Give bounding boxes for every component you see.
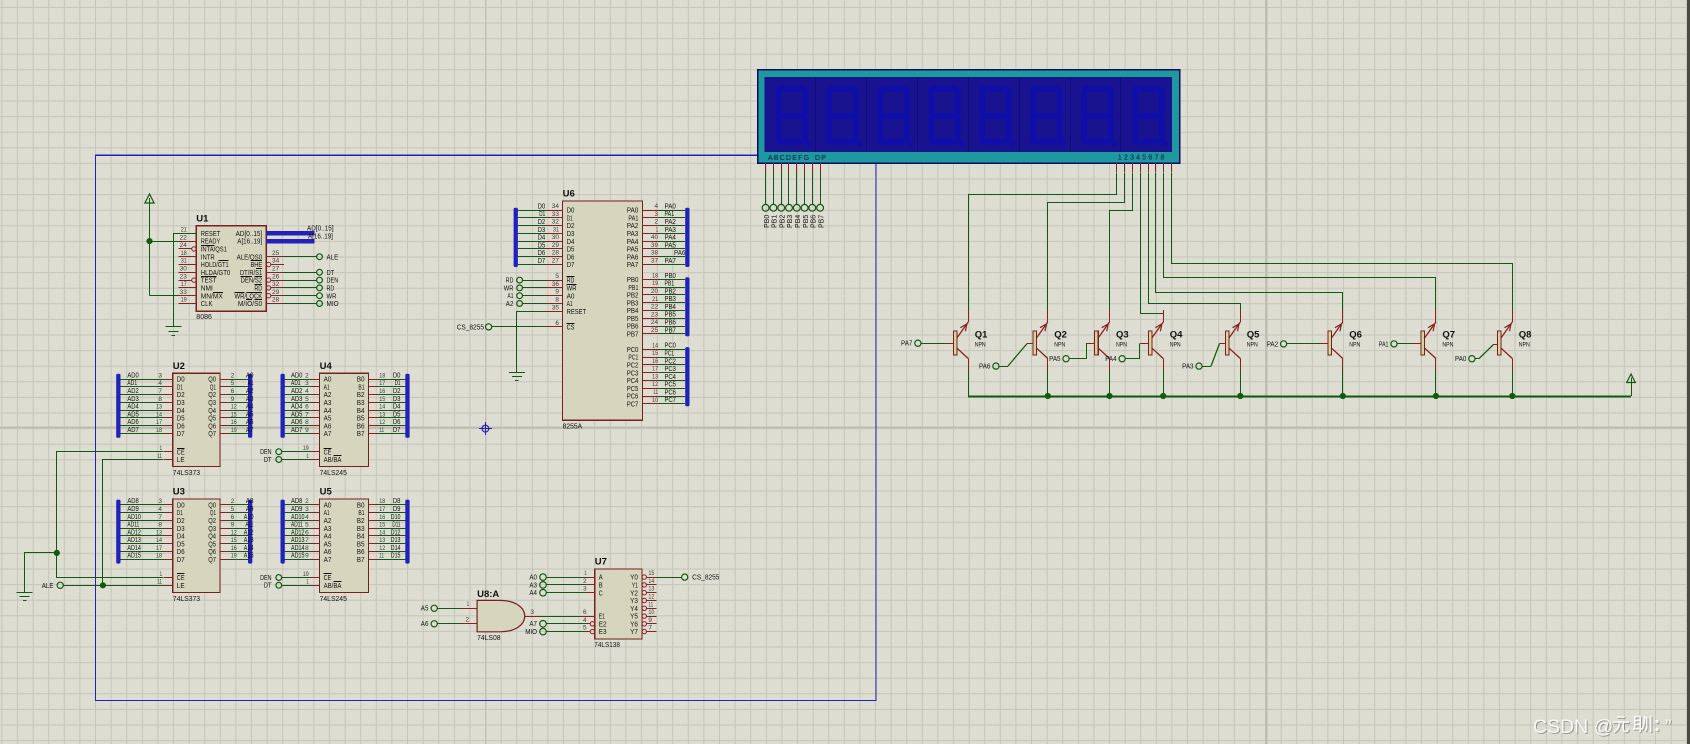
svg-text:PB7: PB7 [818,215,825,228]
svg-text:NPN: NPN [1170,342,1181,349]
svg-text:Q7: Q7 [208,555,216,564]
svg-text:14: 14 [156,537,162,544]
svg-text:14: 14 [652,342,658,349]
svg-text:Q7: Q7 [208,429,216,438]
svg-text:37: 37 [651,258,659,265]
svg-text:A13: A13 [244,537,254,544]
svg-text:D7: D7 [567,260,575,269]
svg-text:A4: A4 [246,404,254,411]
svg-text:13: 13 [379,537,385,544]
svg-text:D10: D10 [391,514,401,521]
svg-text:27: 27 [552,258,560,265]
svg-text:18: 18 [379,372,385,379]
svg-text:7: 7 [648,625,652,632]
svg-text:4: 4 [158,506,162,513]
svg-text:5: 5 [231,380,235,387]
svg-text:A14: A14 [244,545,254,552]
svg-text:”: ” [1665,716,1672,738]
svg-text:D7: D7 [538,258,546,265]
svg-text:AD4: AD4 [127,404,138,411]
svg-text:D8: D8 [393,498,401,505]
svg-text:MIO: MIO [327,299,339,308]
svg-text:17: 17 [156,545,162,552]
svg-text:23: 23 [651,311,659,318]
svg-text:PA7: PA7 [665,258,676,265]
svg-text:8: 8 [305,545,309,552]
svg-text:RD: RD [506,278,514,285]
svg-text:18: 18 [156,553,162,560]
svg-text:A7: A7 [324,555,332,564]
svg-text:22: 22 [651,304,659,311]
svg-text:AD1: AD1 [127,380,137,387]
svg-text:A1: A1 [248,380,254,387]
svg-text:AB/BA: AB/BA [324,455,342,464]
svg-text:Q3: Q3 [1116,330,1129,341]
svg-text:13: 13 [156,404,162,411]
svg-text:12: 12 [379,419,385,426]
svg-text:17: 17 [652,366,658,373]
svg-text:PC6: PC6 [665,389,676,396]
svg-text:PB2: PB2 [779,215,786,228]
svg-text:AD0: AD0 [291,372,302,379]
svg-text:A0: A0 [529,575,537,582]
svg-text:1: 1 [584,570,587,577]
svg-text:D4: D4 [538,235,546,242]
svg-text:U3: U3 [173,487,185,498]
svg-text:D12: D12 [391,529,401,536]
svg-text:24: 24 [651,319,659,326]
svg-text:PA7: PA7 [627,260,639,269]
svg-text:16: 16 [652,358,658,365]
svg-text:13: 13 [156,529,162,536]
svg-text:U1: U1 [196,213,209,224]
svg-text:D6: D6 [393,419,401,426]
svg-text:A1: A1 [508,293,514,300]
svg-text:AD2: AD2 [127,388,138,395]
svg-text:PB0: PB0 [764,215,771,228]
svg-text:3: 3 [158,498,162,505]
svg-text:C: C [599,588,603,597]
svg-text:12: 12 [231,404,237,411]
svg-text:AD9: AD9 [127,506,138,513]
svg-text:17: 17 [156,419,162,426]
svg-text:2: 2 [466,617,470,624]
svg-text:32: 32 [552,219,560,226]
svg-text:7: 7 [158,388,162,395]
svg-text:18: 18 [156,427,162,434]
svg-text:16: 16 [379,388,385,395]
svg-text:2: 2 [655,219,659,226]
svg-text:MIO: MIO [525,629,537,636]
svg-text:A6: A6 [421,621,429,628]
svg-text:13: 13 [379,411,385,418]
svg-text:AD12: AD12 [127,529,141,536]
svg-text:9: 9 [555,289,559,296]
svg-text:9: 9 [305,553,309,560]
svg-text:34: 34 [272,258,280,265]
svg-text:PA0: PA0 [1455,356,1466,363]
svg-text:AD14: AD14 [291,545,305,552]
svg-text:5: 5 [305,522,309,529]
svg-text:PB4: PB4 [795,215,802,228]
svg-text:14: 14 [156,411,162,418]
svg-text:8255A: 8255A [563,422,583,431]
svg-text:2: 2 [231,498,235,505]
svg-text:10: 10 [648,609,654,616]
svg-text:A0: A0 [246,372,254,379]
svg-text:17: 17 [379,380,385,387]
svg-text:A5: A5 [246,411,254,418]
svg-text:Q1: Q1 [975,330,988,341]
svg-text:6: 6 [583,609,587,616]
svg-text:10: 10 [652,397,658,404]
svg-text:3: 3 [158,372,162,379]
svg-text:19: 19 [652,280,658,287]
svg-text:RESET: RESET [567,307,587,316]
svg-text:PA5: PA5 [665,242,676,249]
svg-text:29: 29 [552,242,560,249]
svg-text:8: 8 [158,522,162,529]
svg-text:1: 1 [467,601,470,608]
svg-text:A7: A7 [246,427,254,434]
svg-text:25: 25 [651,327,659,334]
svg-text:2: 2 [231,372,235,379]
svg-text:LE: LE [177,581,185,590]
svg-text:PA1: PA1 [1379,341,1389,348]
svg-text:A2: A2 [246,388,254,395]
svg-text:74LS138: 74LS138 [594,640,620,649]
svg-text:28: 28 [552,250,560,257]
svg-text:7: 7 [158,514,162,521]
svg-text:Q7: Q7 [1442,330,1455,341]
svg-text:PB0: PB0 [665,273,676,280]
svg-text:A9: A9 [246,506,254,513]
svg-text:1: 1 [306,453,309,460]
svg-text:1: 1 [656,226,659,233]
svg-text:PA6: PA6 [979,364,990,371]
svg-text:AD15: AD15 [291,553,305,560]
svg-text:PA2: PA2 [665,219,676,226]
svg-text:PA2: PA2 [1267,341,1278,348]
svg-text:15: 15 [231,411,237,418]
svg-text:U6: U6 [563,189,575,200]
svg-text:PB2: PB2 [665,288,676,295]
svg-text:15: 15 [648,570,654,577]
svg-text:6: 6 [231,388,235,395]
svg-text:21: 21 [181,227,187,234]
svg-text:A2: A2 [506,301,514,308]
svg-text:A4: A4 [529,590,537,597]
svg-text:AB/BA: AB/BA [324,581,342,590]
svg-text:74LS245: 74LS245 [320,468,347,477]
svg-text:9: 9 [305,427,309,434]
svg-text:U8:A: U8:A [477,589,499,600]
svg-text:40: 40 [651,234,659,241]
svg-text:A5: A5 [421,606,429,613]
svg-text:Y7: Y7 [630,627,638,636]
svg-text:34: 34 [552,203,560,210]
svg-text:3: 3 [583,586,587,593]
svg-text:9: 9 [231,522,235,529]
svg-text:17: 17 [181,281,187,288]
svg-text:39: 39 [651,242,659,249]
svg-text:33: 33 [552,211,560,218]
svg-text:Q4: Q4 [1170,330,1183,341]
svg-text:PB6: PB6 [811,215,818,228]
svg-text:11: 11 [379,553,384,560]
svg-text:11: 11 [379,427,384,434]
svg-text:A3: A3 [529,582,537,589]
svg-text:14: 14 [379,404,385,411]
svg-text:6: 6 [305,404,309,411]
svg-text:PC1: PC1 [665,351,675,358]
svg-text:D11: D11 [392,522,400,529]
svg-text:74LS373: 74LS373 [173,468,200,477]
svg-text:7: 7 [305,537,309,544]
svg-text:NPN: NPN [1116,342,1127,349]
svg-text:15: 15 [231,537,237,544]
svg-text:ABCDEFG: ABCDEFG [768,155,810,162]
svg-text:M/IO/S0: M/IO/S0 [238,299,262,308]
svg-text:23: 23 [180,273,188,280]
svg-text:PA1: PA1 [665,211,675,218]
svg-text:CS_8255: CS_8255 [457,323,484,332]
svg-text:NPN: NPN [1247,342,1258,349]
svg-text:6: 6 [231,514,235,521]
svg-text:1: 1 [306,579,309,586]
svg-text:AD6: AD6 [291,419,302,426]
svg-text:8: 8 [305,419,309,426]
svg-text:AD0: AD0 [127,372,138,379]
svg-text:DEN: DEN [260,575,271,582]
svg-text:AD10: AD10 [127,514,141,521]
svg-text:Q6: Q6 [1349,330,1362,341]
svg-text:A[16..19]: A[16..19] [308,232,333,241]
svg-text:5: 5 [555,273,559,280]
svg-text:31: 31 [553,226,559,233]
svg-text:12: 12 [648,594,654,601]
svg-text:19: 19 [181,297,187,304]
svg-text:12: 12 [652,381,658,388]
svg-text:8086: 8086 [196,312,212,321]
svg-text:PB4: PB4 [665,304,676,311]
svg-text:14: 14 [379,529,385,536]
svg-text:D15: D15 [391,553,401,560]
svg-text:A8: A8 [246,498,254,505]
svg-text:5: 5 [305,396,309,403]
svg-text:AD15: AD15 [127,553,141,560]
svg-text:AD7: AD7 [127,427,138,434]
svg-text:16: 16 [231,419,237,426]
svg-text:AD9: AD9 [291,506,302,513]
svg-text:AD1: AD1 [291,380,301,387]
svg-text:AD11: AD11 [291,522,303,529]
svg-text:22: 22 [180,234,188,241]
svg-text:PB7: PB7 [665,327,676,334]
svg-text:14: 14 [648,578,654,585]
svg-text:ALE: ALE [327,252,339,261]
svg-text:PC4: PC4 [665,374,676,381]
svg-text:2: 2 [305,498,309,505]
svg-text:PC5: PC5 [665,382,676,389]
svg-text:D1: D1 [395,380,401,387]
svg-text:PB3: PB3 [665,296,676,303]
svg-text:PB5: PB5 [803,215,810,228]
svg-text:D5: D5 [393,411,401,418]
svg-text:AD5: AD5 [291,411,302,418]
svg-text:15: 15 [652,350,658,357]
svg-text:12: 12 [231,529,237,536]
svg-text:12: 12 [379,545,385,552]
svg-text:27: 27 [272,266,280,273]
svg-text:PB1: PB1 [772,215,779,228]
svg-text:PA4: PA4 [665,235,676,242]
svg-text:DT: DT [264,457,272,464]
svg-text:D7: D7 [393,427,401,434]
svg-text:19: 19 [231,553,237,560]
svg-text:A6: A6 [246,419,254,426]
svg-text:DEN: DEN [260,449,271,456]
svg-text:15: 15 [379,522,385,529]
svg-text:AD11: AD11 [127,522,139,529]
svg-text:9: 9 [231,396,235,403]
svg-text:18: 18 [379,498,385,505]
svg-text:11: 11 [653,389,658,396]
svg-text:18: 18 [181,250,187,257]
svg-text:4: 4 [655,203,659,210]
svg-text:3: 3 [530,609,534,616]
svg-text:AD13: AD13 [291,537,305,544]
svg-text:D5: D5 [538,242,546,249]
svg-text:WR: WR [504,285,514,292]
svg-text:B7: B7 [357,429,365,438]
svg-text:A11: A11 [245,522,253,529]
svg-text:AD4: AD4 [291,404,302,411]
svg-text:NPN: NPN [1054,342,1065,349]
svg-text:11: 11 [157,579,162,586]
svg-text:AD10: AD10 [291,514,305,521]
svg-text:35: 35 [552,304,560,311]
svg-text:PB7: PB7 [627,330,639,339]
svg-text:D14: D14 [391,545,401,552]
svg-text:4: 4 [305,388,309,395]
svg-text:AD6: AD6 [127,419,138,426]
svg-text:A10: A10 [244,514,254,521]
svg-text:29: 29 [272,289,280,296]
svg-text:16: 16 [231,545,237,552]
svg-text:CLK: CLK [201,299,213,308]
svg-text:13: 13 [652,374,658,381]
svg-text:4: 4 [305,514,309,521]
svg-text:PB6: PB6 [665,320,676,327]
svg-text:AD7: AD7 [291,427,302,434]
svg-text:12345678: 12345678 [1118,154,1167,161]
svg-text:A7: A7 [529,621,537,628]
svg-text:CS_8255: CS_8255 [692,573,719,582]
svg-text:11: 11 [648,601,653,608]
svg-text:PC7: PC7 [627,399,639,408]
svg-text:D3: D3 [393,396,401,403]
svg-text:NPN: NPN [1519,342,1530,349]
svg-text:33: 33 [180,289,188,296]
svg-text:AD14: AD14 [127,545,141,552]
svg-text:PA5: PA5 [1049,356,1060,363]
svg-text:AD8: AD8 [127,498,138,505]
svg-text:3: 3 [305,380,309,387]
svg-text:24: 24 [180,242,188,249]
svg-text:D6: D6 [538,250,546,257]
svg-text:74LS245: 74LS245 [320,594,347,603]
svg-text:11: 11 [157,453,162,460]
svg-text:PC2: PC2 [665,358,676,365]
svg-text:31: 31 [181,258,187,265]
svg-text:PB5: PB5 [665,312,676,319]
svg-text:AD3: AD3 [127,396,138,403]
svg-text:26: 26 [272,273,280,280]
svg-text:D3: D3 [538,227,546,234]
svg-text:PA7: PA7 [901,341,912,348]
svg-text:AD5: AD5 [127,411,138,418]
svg-text:2: 2 [305,372,309,379]
svg-text:NPN: NPN [975,342,986,349]
svg-text:D13: D13 [391,537,401,544]
svg-text:5: 5 [231,506,235,513]
svg-text:Q8: Q8 [1519,330,1532,341]
svg-text:PC7: PC7 [665,397,676,404]
svg-text:PB3: PB3 [787,215,794,228]
svg-text:17: 17 [379,506,385,513]
svg-text:E3: E3 [599,627,607,636]
svg-text:LE: LE [177,455,185,464]
svg-text:7: 7 [305,411,309,418]
svg-text:15: 15 [379,396,385,403]
svg-text:A[16..19]: A[16..19] [237,237,262,246]
svg-text:U5: U5 [320,487,333,498]
svg-text:19: 19 [231,427,237,434]
svg-text:74LS08: 74LS08 [477,633,500,642]
svg-text:28: 28 [272,297,280,304]
svg-text:Q2: Q2 [1054,330,1067,341]
svg-text:13: 13 [648,586,654,593]
svg-text:8: 8 [158,396,162,403]
svg-text:D0: D0 [538,203,546,210]
svg-text:18: 18 [652,272,658,279]
svg-text:B7: B7 [357,555,365,564]
svg-text:6: 6 [305,529,309,536]
svg-text:D2: D2 [538,219,546,226]
svg-text:PA6: PA6 [674,250,685,257]
svg-text:16: 16 [379,514,385,521]
svg-text:D0: D0 [393,372,401,379]
svg-text:74LS373: 74LS373 [173,594,200,603]
svg-text:CSDN @: CSDN @ [1533,716,1613,738]
svg-text:30: 30 [180,266,188,273]
svg-text:1: 1 [160,571,163,578]
svg-text:U2: U2 [173,361,185,372]
svg-text:D7: D7 [177,555,185,564]
svg-text:8: 8 [555,297,559,304]
svg-text:4: 4 [158,380,162,387]
svg-text:D9: D9 [393,506,401,513]
svg-text:Q5: Q5 [1247,330,1260,341]
svg-text:U4: U4 [320,361,333,372]
svg-text:36: 36 [552,281,560,288]
svg-text:D7: D7 [177,429,185,438]
svg-text:38: 38 [651,250,659,257]
svg-text:6: 6 [555,320,559,327]
svg-text:20: 20 [651,288,659,295]
svg-text:AD12: AD12 [291,529,305,536]
